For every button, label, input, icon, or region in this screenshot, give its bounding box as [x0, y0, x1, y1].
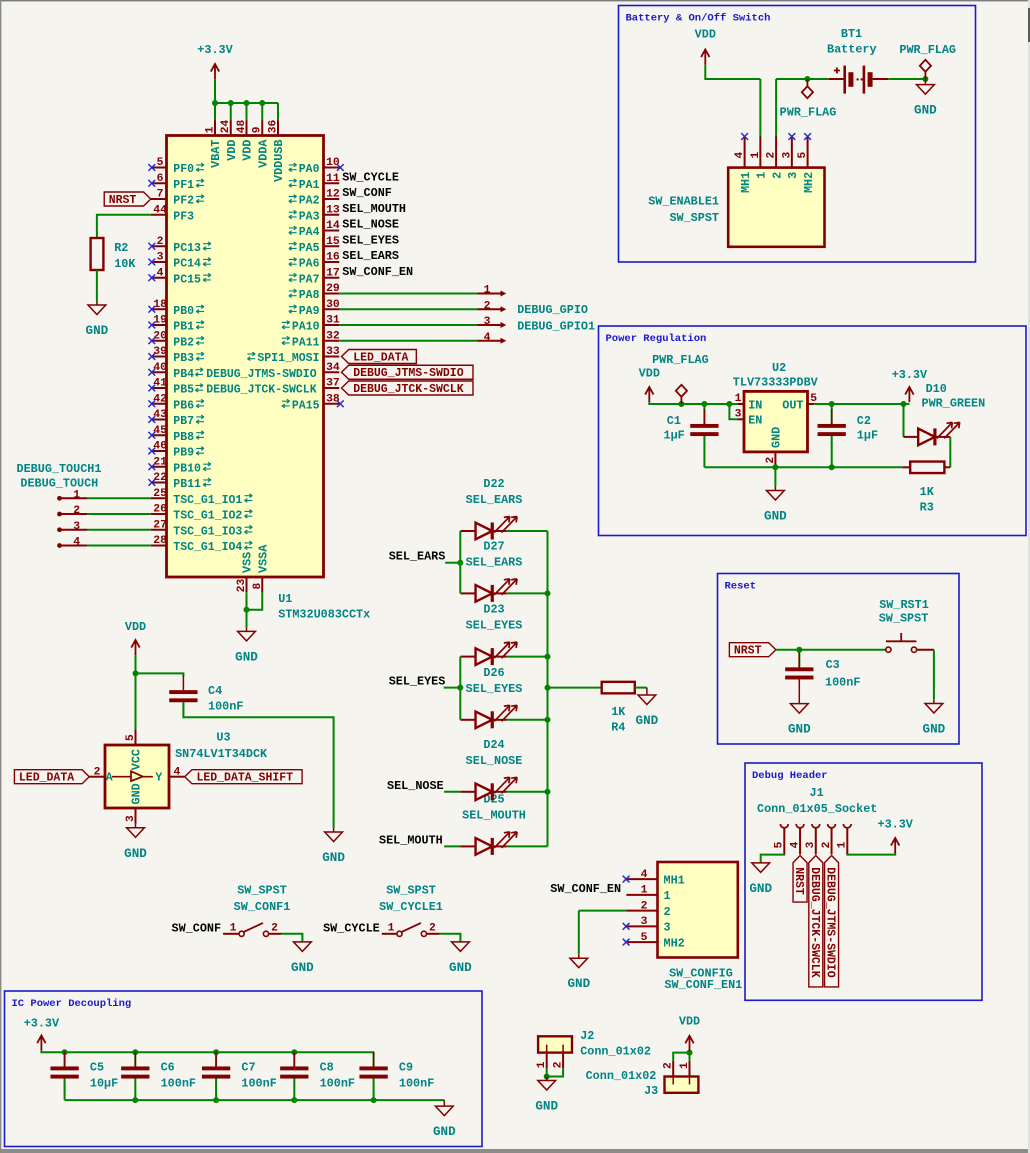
ground R4: [636, 688, 659, 728]
svg-text:3: 3: [641, 916, 648, 928]
svg-text:SEL_EARS: SEL_EARS: [389, 550, 446, 564]
wire rail stub pin 24: [230, 103, 232, 120]
svg-text:PWR_FLAG: PWR_FLAG: [780, 106, 837, 120]
svg-text:PA9: PA9: [299, 305, 320, 318]
svg-text:48: 48: [236, 119, 248, 133]
svg-text:41: 41: [153, 378, 167, 390]
U1 top pins VBAT VDD VDD VDDA VDDUSB: [204, 119, 286, 181]
svg-text:J1: J1: [810, 786, 824, 800]
wire C4 to GND: [183, 702, 333, 828]
LED D10: [918, 422, 960, 445]
global label NRST reset: [729, 643, 776, 658]
wire SEL_EYES: [444, 687, 461, 689]
wire VDD to U2 IN: [649, 402, 737, 404]
svg-text:SEL_EYES: SEL_EYES: [466, 619, 523, 633]
svg-text:32: 32: [326, 330, 340, 342]
junction bottom rail: [132, 1097, 138, 1103]
svg-text:PB1: PB1: [173, 321, 194, 334]
wire cap bottom stem: [293, 1079, 295, 1101]
svg-text:3: 3: [484, 316, 491, 328]
svg-text:100nF: 100nF: [241, 1077, 276, 1091]
svg-text:Conn_01x05_Socket: Conn_01x05_Socket: [757, 802, 877, 816]
svg-text:30: 30: [326, 299, 340, 311]
capacitor C1: [690, 409, 718, 451]
LED D22: [476, 517, 518, 540]
wire C1 top stem: [703, 404, 705, 424]
wire switch SW_CYCLE1 to GND: [440, 934, 461, 942]
svg-text:GND: GND: [914, 104, 937, 118]
svg-text:GND: GND: [322, 851, 345, 865]
svg-text:PB10: PB10: [173, 462, 201, 475]
wire SEL_EARS: [445, 562, 460, 564]
wire PA11 to DEBUG_GPIO pin 4: [339, 340, 477, 342]
svg-text:DEBUG_GPIO1: DEBUG_GPIO1: [517, 319, 595, 333]
ground R2: [86, 301, 109, 338]
svg-text:37: 37: [326, 378, 340, 390]
svg-text:GND: GND: [130, 783, 144, 804]
svg-text:39: 39: [153, 346, 167, 358]
wire cap top stem: [134, 1052, 136, 1067]
junction VSS: [244, 607, 250, 613]
svg-text:PC15: PC15: [173, 273, 201, 286]
svg-text:3: 3: [664, 921, 671, 935]
svg-text:SN74LV1T34DCK: SN74LV1T34DCK: [175, 747, 268, 761]
svg-text:2: 2: [157, 236, 164, 248]
junction C1 top: [701, 401, 707, 407]
svg-text:2: 2: [553, 1061, 565, 1068]
capacitor C7: [202, 1051, 230, 1093]
battery BT1: [829, 66, 889, 94]
svg-text:SW_CYCLE: SW_CYCLE: [342, 170, 399, 184]
power VDD regulation arrow: [645, 387, 653, 402]
svg-text:PA11: PA11: [292, 336, 320, 349]
no-connect X: [804, 133, 811, 140]
svg-text:PB2: PB2: [173, 336, 194, 349]
ground switch SW_CYCLE1: [449, 942, 472, 975]
wire SEL_MOUTH: [444, 845, 460, 847]
capacitor C6: [121, 1051, 149, 1093]
svg-text:2: 2: [73, 505, 80, 517]
svg-text:VSS: VSS: [241, 552, 255, 573]
wire switch SW_CONF1 to GND: [282, 934, 303, 942]
svg-text:1K: 1K: [611, 705, 626, 719]
svg-text:10µF: 10µF: [90, 1077, 118, 1091]
svg-text:A: A: [106, 772, 113, 785]
svg-text:SW_SPST: SW_SPST: [237, 884, 287, 898]
svg-text:36: 36: [267, 119, 279, 133]
svg-text:GND: GND: [86, 324, 109, 338]
svg-text:J2: J2: [580, 1029, 594, 1043]
svg-text:SEL_NOSE: SEL_NOSE: [342, 218, 399, 232]
svg-text:GND: GND: [433, 1125, 456, 1139]
junction top rail: [291, 1049, 297, 1055]
no-connect X: [623, 876, 630, 883]
junction right rail: [545, 685, 551, 691]
svg-text:43: 43: [153, 409, 167, 421]
LED D27: [476, 579, 518, 602]
junction LED branch: [901, 401, 907, 407]
svg-text:5: 5: [774, 841, 786, 848]
J1 pin 2: [821, 824, 836, 854]
connector J3 body: [665, 1077, 699, 1093]
ground SW_CONF_EN1: [567, 954, 590, 991]
junction PWR_FLAG reg: [678, 401, 684, 407]
svg-text:D23: D23: [483, 603, 504, 617]
svg-text:Conn_01x02: Conn_01x02: [580, 1045, 651, 1059]
J2 pin 1: [536, 1053, 548, 1069]
svg-text:LED_DATA_SHIFT: LED_DATA_SHIFT: [196, 772, 293, 785]
svg-text:SW_SPST: SW_SPST: [669, 211, 719, 225]
svg-text:PA1: PA1: [299, 179, 320, 192]
svg-text:C4: C4: [208, 684, 222, 698]
svg-text:+3.3V: +3.3V: [892, 368, 928, 382]
svg-text:PB5: PB5: [173, 384, 194, 397]
svg-text:LED_DATA: LED_DATA: [19, 772, 74, 785]
PWR_FLAG battery left: [802, 79, 813, 98]
sheet IC Power Decoupling: [5, 991, 483, 1147]
svg-text:GND: GND: [788, 723, 811, 737]
svg-text:3: 3: [735, 409, 742, 421]
wire cap bottom stem: [64, 1079, 66, 1101]
SW_CONF_EN1 pin 3 3: [626, 916, 670, 935]
svg-text:12: 12: [326, 189, 340, 201]
svg-text:100nF: 100nF: [161, 1077, 196, 1091]
op-amp U3 body SN74LV1T34DCK: [105, 745, 169, 808]
svg-text:21: 21: [153, 456, 167, 468]
svg-text:VDD: VDD: [225, 140, 239, 161]
capacitor C4: [169, 675, 197, 717]
svg-text:1: 1: [536, 1061, 548, 1068]
svg-text:SEL_EYES: SEL_EYES: [389, 675, 446, 689]
wire OUT rail: [814, 403, 909, 405]
wire cap bottom stem: [373, 1079, 375, 1101]
svg-text:44: 44: [153, 204, 167, 216]
svg-text:Battery: Battery: [827, 43, 877, 57]
svg-text:2: 2: [663, 1062, 675, 1069]
svg-text:1: 1: [388, 922, 395, 934]
svg-text:100nF: 100nF: [399, 1077, 434, 1091]
global label DEBUG_JTCK-SWCLK J1: [808, 856, 823, 987]
svg-text:100nF: 100nF: [825, 676, 860, 690]
svg-text:GND: GND: [567, 977, 590, 991]
wire D23 to right rail: [507, 656, 548, 658]
svg-text:PC13: PC13: [173, 242, 201, 255]
capacitor C9: [359, 1051, 387, 1093]
svg-text:2: 2: [664, 905, 671, 919]
switch SW_RST1 pushbutton: [886, 633, 934, 652]
svg-text:PA6: PA6: [299, 258, 320, 271]
svg-text:2: 2: [765, 457, 777, 464]
svg-text:NRST: NRST: [734, 645, 762, 658]
junction top rail: [62, 1049, 68, 1055]
ground J2: [535, 1077, 558, 1114]
global label LED_DATA at U3 A: [14, 770, 89, 785]
svg-text:1K: 1K: [920, 485, 935, 499]
junction J3 VDD: [687, 1050, 693, 1056]
svg-text:VDD: VDD: [639, 367, 660, 381]
svg-text:SEL_EYES: SEL_EYES: [342, 233, 399, 247]
svg-text:PA7: PA7: [299, 273, 320, 286]
wire J3 pin1 to VDD: [689, 1053, 691, 1061]
regulator U2 body TLV73333PDBV: [744, 391, 808, 452]
svg-text:VDD: VDD: [241, 140, 255, 161]
svg-text:DEBUG_JTMS-SWDIO: DEBUG_JTMS-SWDIO: [824, 867, 837, 978]
no-connect X: [741, 133, 748, 140]
wire C2 bottom stem: [831, 436, 833, 467]
svg-text:1: 1: [750, 152, 762, 159]
svg-text:VDDA: VDDA: [256, 139, 270, 168]
U3 pin 4 Y: [155, 766, 184, 784]
U2 pin 2 GND: [765, 427, 784, 468]
svg-text:NRST: NRST: [792, 867, 805, 895]
svg-text:SW_CYCLE: SW_CYCLE: [323, 922, 380, 936]
wire J1 pin1 to +3.3V: [847, 852, 895, 854]
svg-text:8: 8: [252, 583, 264, 590]
svg-text:SW_CONF: SW_CONF: [172, 922, 222, 936]
svg-text:PWR_GREEN: PWR_GREEN: [922, 396, 986, 410]
junction: [212, 100, 218, 106]
svg-text:Power Regulation: Power Regulation: [606, 333, 707, 345]
svg-text:+3.3V: +3.3V: [877, 817, 913, 831]
svg-text:26: 26: [153, 504, 167, 516]
svg-text:3: 3: [805, 841, 817, 848]
switch SW_CONF_EN1 body SW_CONFIG: [658, 862, 738, 958]
svg-text:19: 19: [153, 315, 167, 327]
svg-text:29: 29: [326, 283, 340, 295]
wire VDD to C4: [136, 673, 184, 676]
wire J2 pin2 to GND: [547, 1068, 563, 1076]
svg-text:13: 13: [326, 204, 340, 216]
connector DEBUG_GPIO pin 3: [477, 316, 506, 328]
J3 pin 1: [679, 1061, 691, 1077]
switch SW_CYCLE1 switch body: [382, 922, 440, 936]
ground switch SW_CONF1: [291, 942, 314, 975]
wire rail stub pin 9: [261, 103, 263, 120]
svg-text:1: 1: [679, 1062, 691, 1069]
wire cap bottom stem: [215, 1079, 217, 1101]
junction C2 top: [829, 401, 835, 407]
ground C3: [788, 694, 811, 736]
svg-text:11: 11: [326, 173, 340, 185]
svg-text:Battery & On/Off Switch: Battery & On/Off Switch: [626, 12, 771, 24]
wire C3 top stem: [798, 650, 800, 668]
U1 right pins: [247, 157, 343, 412]
svg-text:NRST: NRST: [109, 194, 137, 207]
svg-text:D10: D10: [926, 382, 947, 396]
svg-text:28: 28: [153, 535, 167, 547]
svg-text:1: 1: [664, 889, 671, 903]
svg-text:SEL_NOSE: SEL_NOSE: [466, 754, 523, 768]
wire battery to PWR_FLAG: [888, 78, 925, 80]
wire switch to GND: [933, 650, 935, 700]
svg-text:IC Power Decoupling: IC Power Decoupling: [12, 998, 132, 1010]
connector DEBUG_GPIO pin 2: [477, 300, 506, 312]
wire J3 pin2 to VDD: [673, 1053, 689, 1061]
wire PF3 to R2: [97, 215, 151, 238]
svg-text:14: 14: [326, 220, 340, 232]
ground U1: [235, 627, 258, 664]
wire SEL_NOSE: [444, 791, 460, 793]
wire VDD to U3 VCC: [135, 655, 137, 729]
junction EN branch: [726, 401, 732, 407]
svg-text:U1: U1: [278, 592, 292, 606]
capacitor C2: [818, 409, 846, 451]
svg-text:PB4: PB4: [173, 368, 194, 381]
svg-text:SW_CONF_EN1: SW_CONF_EN1: [664, 978, 742, 992]
LED D26: [476, 705, 518, 728]
wire D10 to R3: [949, 437, 951, 467]
global label DEBUG_JTMS-SWDIO at pin 34: [342, 365, 473, 380]
svg-text:C9: C9: [399, 1061, 413, 1075]
svg-text:PF3: PF3: [173, 210, 194, 223]
svg-text:PA2: PA2: [299, 195, 320, 208]
no-connect X: [788, 133, 795, 140]
junction: [244, 100, 250, 106]
svg-text:C1: C1: [667, 414, 681, 428]
svg-text:PA4: PA4: [299, 226, 320, 239]
power VDD U3 arrow: [131, 640, 139, 655]
SW_CONF_EN1 pin 4 MH1: [626, 869, 684, 888]
svg-text:PB0: PB0: [173, 305, 194, 318]
wire NRST to switch: [776, 649, 886, 651]
svg-text:100nF: 100nF: [208, 700, 243, 714]
svg-text:D26: D26: [483, 666, 504, 680]
svg-text:U2: U2: [772, 361, 786, 375]
wire J1 pin5 to GND: [761, 854, 785, 862]
svg-text:SPI1_MOSI: SPI1_MOSI: [257, 352, 319, 365]
wire SW pin1 drop: [759, 79, 761, 137]
svg-text:PA5: PA5: [299, 242, 320, 255]
sheet Power Regulation: [599, 326, 1027, 536]
svg-text:+3.3V: +3.3V: [197, 43, 233, 57]
svg-text:PB3: PB3: [173, 352, 194, 365]
ground decoupling: [433, 1100, 456, 1139]
power +3.3V regulation arrow: [905, 387, 913, 402]
no-connect X: [623, 923, 630, 930]
sheet Battery and On/Off Switch: [619, 6, 976, 263]
connector DEBUG_GPIO pin 1: [477, 285, 506, 297]
wire branch to D10: [903, 404, 905, 437]
global label NRST J1: [792, 856, 807, 903]
svg-text:27: 27: [153, 519, 167, 531]
svg-text:VDDUSB: VDDUSB: [272, 140, 286, 182]
wire D22 to right rail: [507, 530, 548, 532]
wire PA10 to DEBUG_GPIO pin 3: [339, 324, 477, 326]
svg-text:20: 20: [153, 330, 167, 342]
junction VDD C4: [133, 670, 139, 676]
junction PWR_FLAG battery: [804, 76, 810, 82]
svg-text:C5: C5: [90, 1061, 104, 1075]
wire EN branch: [729, 404, 737, 419]
sheet Reset: [718, 574, 960, 745]
wire rail D22-D27: [459, 531, 461, 593]
svg-text:GND: GND: [764, 510, 787, 524]
svg-text:C7: C7: [241, 1061, 255, 1075]
svg-text:VDD: VDD: [679, 1015, 700, 1029]
svg-text:16: 16: [326, 252, 340, 264]
svg-text:1: 1: [73, 489, 80, 501]
junction SEL_EARS: [457, 560, 463, 566]
svg-text:46: 46: [153, 441, 167, 453]
global label DEBUG_JTCK-SWCLK at pin 37: [342, 381, 473, 396]
U2 pin 5 OUT: [782, 393, 817, 412]
svg-text:DEBUG_JTCK-SWCLK: DEBUG_JTCK-SWCLK: [353, 383, 464, 396]
wire cap bottom stem: [134, 1079, 136, 1101]
junction: [228, 100, 234, 106]
svg-text:SEL_EARS: SEL_EARS: [342, 249, 399, 263]
svg-text:PA3: PA3: [299, 210, 320, 223]
svg-text:SEL_EYES: SEL_EYES: [466, 682, 523, 696]
wire VDD to SW pin 1: [705, 65, 760, 79]
svg-text:40: 40: [153, 362, 167, 374]
svg-text:MH1: MH1: [739, 172, 753, 193]
svg-text:VCC: VCC: [130, 749, 144, 770]
svg-text:10K: 10K: [114, 257, 136, 271]
wire +3.3V to VDD rail: [214, 79, 216, 103]
svg-text:2: 2: [271, 922, 278, 934]
wire VSS to GND: [246, 592, 248, 627]
svg-text:1: 1: [641, 885, 648, 897]
connector DEBUG_TOUCH1 pin 3: [57, 521, 87, 533]
connector DEBUG_GPIO pin 4: [477, 332, 506, 344]
SW_CONF_EN1 pin 2 2: [626, 900, 670, 919]
svg-text:DEBUG_JTMS-SWDIO: DEBUG_JTMS-SWDIO: [206, 368, 317, 381]
junction right rail: [545, 717, 551, 723]
svg-text:DEBUG_TOUCH1: DEBUG_TOUCH1: [17, 462, 102, 476]
svg-text:D24: D24: [483, 738, 504, 752]
resistor R2: [91, 238, 104, 270]
wire cap top stem: [293, 1052, 295, 1067]
svg-text:4: 4: [484, 332, 491, 344]
J1 pin 1: [837, 824, 852, 854]
U1 body: [167, 136, 324, 578]
svg-text:SW_SPST: SW_SPST: [879, 611, 929, 625]
svg-text:PA15: PA15: [292, 399, 320, 412]
U1 bottom pins VSS VSSA: [236, 544, 270, 592]
svg-text:4: 4: [789, 841, 801, 848]
wire VSSA to VSS: [247, 592, 263, 609]
svg-text:PA8: PA8: [299, 289, 320, 302]
ground U2: [764, 487, 787, 524]
svg-text:PB7: PB7: [173, 415, 194, 428]
junction C3: [796, 647, 802, 653]
wire PA9 to DEBUG_GPIO pin 2: [339, 308, 477, 310]
svg-text:SEL_MOUTH: SEL_MOUTH: [462, 808, 526, 822]
wire D25 to right rail: [507, 845, 548, 847]
ground C4: [322, 828, 345, 865]
wire SW pin2 drop: [775, 79, 777, 137]
svg-text:9: 9: [252, 126, 264, 133]
svg-text:MH2: MH2: [664, 936, 685, 950]
svg-text:4: 4: [157, 267, 164, 279]
LED D23: [476, 642, 518, 665]
svg-text:IN: IN: [748, 398, 762, 412]
svg-text:GND: GND: [749, 882, 772, 896]
svg-text:5: 5: [641, 932, 648, 944]
svg-text:1: 1: [735, 393, 742, 405]
svg-text:PB9: PB9: [173, 447, 194, 460]
svg-text:DEBUG_JTCK-SWCLK: DEBUG_JTCK-SWCLK: [808, 867, 821, 978]
no-connect X: [623, 939, 630, 946]
svg-text:2: 2: [429, 922, 436, 934]
global label LED_DATA at PA12: [342, 350, 417, 365]
svg-text:Y: Y: [155, 772, 162, 785]
capacitor C8: [280, 1051, 308, 1093]
svg-text:6: 6: [157, 173, 164, 185]
power VDD battery arrow: [701, 50, 709, 65]
svg-text:C2: C2: [857, 414, 871, 428]
wire drop to GND: [578, 911, 580, 955]
